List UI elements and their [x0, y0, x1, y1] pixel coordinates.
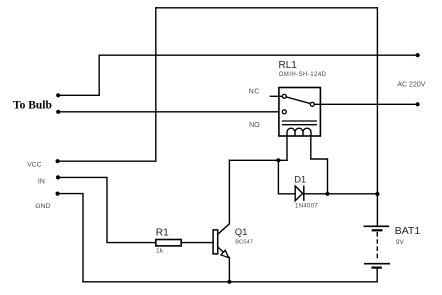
Q1 emitter arrow	[221, 250, 229, 257]
svg-text:IN: IN	[38, 178, 45, 185]
node VCC terminal	[56, 159, 60, 163]
svg-text:VCC: VCC	[27, 161, 41, 168]
wire relay common to AC neutral	[314, 103, 417, 105]
node To Bulb return terminal	[56, 110, 60, 114]
svg-text:RL1: RL1	[279, 60, 298, 71]
diode D1	[295, 186, 304, 201]
wire D1 anode lead	[278, 193, 295, 195]
BAT1 top long plate	[364, 225, 390, 227]
wire right rail down to battery positive	[376, 8, 378, 227]
wire To Bulb lower to relay NO	[58, 111, 284, 113]
wire NC stub	[270, 95, 285, 97]
wire left riser	[155, 8, 157, 161]
relay common contact	[310, 102, 314, 106]
svg-text:BC547: BC547	[235, 240, 253, 246]
D1 cathode bar	[303, 186, 305, 201]
resistor R1	[156, 240, 181, 246]
battery BAT1	[364, 226, 390, 267]
wire coil left pin	[286, 136, 288, 160]
node D1 cathode junction	[325, 192, 329, 196]
svg-text:NO: NO	[249, 122, 260, 129]
wire R1 to Q1 base	[181, 242, 213, 244]
svg-text:D1: D1	[294, 175, 306, 185]
BAT1 top short plate	[372, 229, 383, 231]
wire GND to ground bus	[58, 194, 83, 282]
wire VCC feed to left riser	[58, 160, 156, 162]
svg-text:9V: 9V	[396, 239, 405, 246]
Q1 base bar	[213, 230, 218, 254]
relay coil	[287, 128, 311, 136]
svg-text:1N4007: 1N4007	[295, 203, 318, 210]
wire top rail	[156, 7, 378, 9]
node To Bulb live terminal	[56, 93, 60, 97]
svg-text:OMIH-SH-124D: OMIH-SH-124D	[279, 72, 327, 78]
BAT1 bottom short plate	[371, 267, 382, 269]
node AC neutral terminal	[416, 102, 420, 106]
wire junction to D1 anode	[277, 160, 279, 194]
Q1 collector lead	[218, 224, 230, 235]
svg-text:GND: GND	[35, 203, 50, 210]
relay core lines	[282, 121, 317, 125]
wire battery negative lead	[376, 268, 378, 282]
wire D1 cathode to battery rail	[304, 193, 378, 195]
wire collector to relay coil	[229, 159, 287, 161]
transistor Q1	[213, 224, 229, 258]
wire ground bus	[83, 281, 377, 283]
node coil-collector-diode junction	[276, 158, 280, 162]
wire collector riser	[228, 160, 230, 224]
D1 triangle	[295, 186, 302, 201]
node IN terminal	[56, 175, 60, 179]
svg-text:Q1: Q1	[235, 227, 248, 238]
relay switch arm	[286, 97, 310, 104]
Q1 emitter lead	[218, 247, 230, 258]
svg-text:NC: NC	[249, 88, 260, 95]
relay NO contact	[282, 110, 286, 114]
node GND terminal	[56, 192, 60, 196]
wire emitter riser	[228, 258, 230, 282]
node emitter ground junction	[227, 280, 231, 284]
wire To Bulb upper to AC live	[58, 55, 417, 95]
wire coil right pin to cathode junction	[311, 136, 328, 194]
BAT1 bottom long plate	[364, 263, 390, 265]
svg-text:R1: R1	[156, 228, 169, 239]
wire IN to resistor R1	[58, 177, 156, 242]
relay RL1	[270, 88, 321, 137]
svg-text:1k: 1k	[156, 248, 164, 255]
BAT1 dashed body	[376, 232, 378, 259]
svg-text:To Bulb: To Bulb	[13, 100, 52, 112]
node battery positive junction	[375, 192, 379, 196]
svg-text:BAT1: BAT1	[395, 225, 421, 237]
node AC live terminal	[416, 53, 420, 57]
relay NC contact	[282, 94, 286, 98]
svg-text:AC 220V: AC 220V	[397, 81, 425, 88]
